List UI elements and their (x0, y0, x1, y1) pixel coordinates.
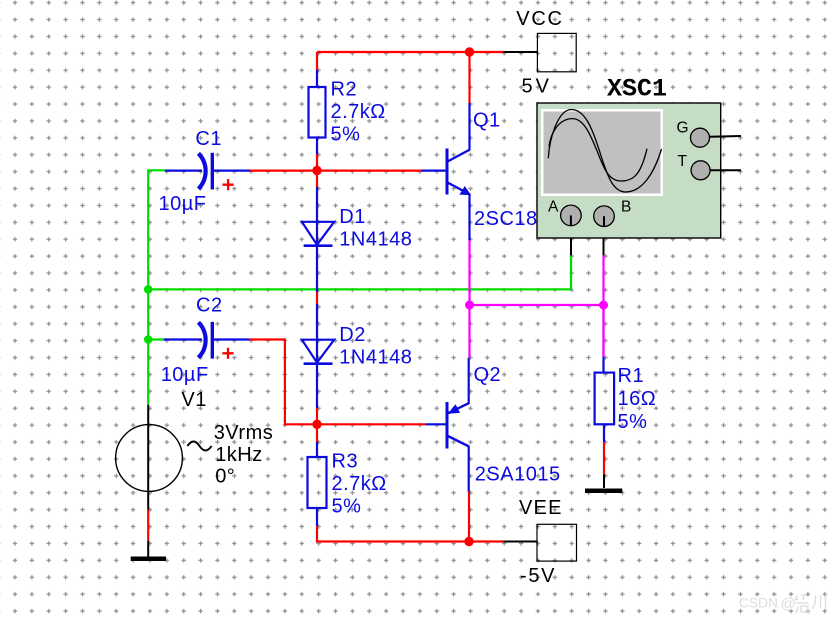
source V1 sine (116, 389, 274, 510)
power terminal VCC (516, 8, 576, 98)
svg-text:D1: D1 (339, 206, 366, 228)
svg-text:A: A (548, 199, 559, 216)
diode D2 1N4148 (302, 324, 412, 369)
svg-text:R2: R2 (331, 78, 358, 100)
svg-text:C2: C2 (196, 295, 223, 317)
svg-text:5V: 5V (522, 76, 552, 98)
svg-text:-5V: -5V (520, 565, 556, 587)
svg-text:C1: C1 (195, 128, 222, 150)
wire magenta B stub to R1 (602, 305, 604, 357)
node junction dot VEE net (464, 537, 473, 546)
transistor Q2 2SA1015 (426, 358, 561, 492)
svg-text:3Vrms: 3Vrms (214, 422, 274, 444)
svg-text:Q2: Q2 (474, 364, 502, 386)
power terminal VEE (519, 497, 577, 587)
capacitor C1 (159, 128, 251, 215)
ground symbol R1 (585, 488, 622, 493)
wire red VCC to Q1 collector (468, 52, 470, 103)
wire blue R3 top pin (316, 442, 318, 457)
svg-text:2.7kΩ: 2.7kΩ (332, 473, 387, 495)
wire black scope A stub (570, 226, 572, 255)
wire red into junction (316, 408, 318, 442)
svg-text:16Ω: 16Ω (618, 388, 657, 410)
svg-text:T: T (678, 153, 688, 170)
svg-text:VCC: VCC (516, 8, 563, 30)
svg-text:V1: V1 (181, 389, 206, 411)
wire VCC terminal black stub (504, 51, 538, 53)
svg-text:1N4148: 1N4148 (339, 347, 412, 369)
wire blue D2 cathode down (316, 364, 318, 408)
node magenta junction dot right (599, 301, 608, 310)
wire black scope B stub (603, 227, 605, 255)
svg-text:VEE: VEE (519, 497, 563, 519)
svg-text:R3: R3 (332, 450, 359, 472)
wire red VEE net bottom (317, 492, 504, 542)
svg-text:XSC1: XSC1 (607, 74, 667, 103)
wire red horizontal C1 to Q1 base (250, 170, 422, 172)
wire green input net vertical (148, 170, 571, 404)
svg-text:2.7kΩ: 2.7kΩ (331, 101, 386, 123)
node junction dot VCC net (465, 47, 474, 56)
node magenta junction dot left (465, 301, 474, 310)
wire blue to D1 anode (316, 187, 318, 222)
wire black ground stub V1 (147, 541, 149, 557)
node green junction dot lower (144, 335, 153, 344)
wire red C2 to Q2 base (250, 340, 426, 425)
svg-text:R1: R1 (618, 365, 645, 387)
svg-text:CSDN: CSDN (739, 595, 778, 610)
wire red R1 to ground (603, 442, 605, 474)
svg-text:Q1: Q1 (473, 110, 501, 132)
wire black ground stub R1 (603, 474, 605, 488)
svg-text:0°: 0° (215, 466, 235, 488)
node junction dot base net (312, 166, 321, 175)
resistor R1 (595, 357, 657, 443)
svg-text:10µF: 10µF (159, 193, 207, 215)
svg-text:5%: 5% (618, 411, 648, 433)
node green junction dot upper (144, 285, 153, 294)
wire VCC net top red (317, 52, 504, 70)
svg-text:G: G (677, 119, 690, 136)
wire blue D1 cathode down (316, 246, 318, 292)
capacitor C2 (161, 295, 250, 387)
svg-text:D2: D2 (339, 324, 366, 346)
svg-text:1kHz: 1kHz (215, 444, 263, 466)
ground symbol V1 (131, 556, 166, 561)
resistor R2 (309, 70, 386, 154)
svg-text:1N4148: 1N4148 (339, 229, 412, 251)
wire black VEE stub (504, 541, 538, 543)
svg-text:5%: 5% (331, 124, 361, 146)
svg-text:5%: 5% (332, 496, 362, 518)
resistor R3 (308, 450, 387, 526)
transistor Q1 2SC1815 (422, 103, 561, 240)
wire red V1 to ground (147, 510, 149, 541)
node junction dot Q2 base net (312, 420, 321, 429)
wire magenta Q1 emitter to Q2 emitter (470, 240, 604, 357)
wire red base net segment at R2 bottom (316, 154, 318, 187)
diode D1 1N4148 (302, 206, 412, 251)
svg-text:10µF: 10µF (161, 364, 209, 386)
wire blue to D2 anode (316, 304, 318, 340)
svg-text:B: B (621, 199, 632, 216)
watermark CSDN (739, 595, 826, 614)
wire red segment below green crossing (316, 292, 318, 304)
svg-text:2SA1015: 2SA1015 (475, 463, 561, 485)
svg-text:@: @ (781, 596, 796, 613)
oscilloscope XSC1 (537, 74, 741, 238)
